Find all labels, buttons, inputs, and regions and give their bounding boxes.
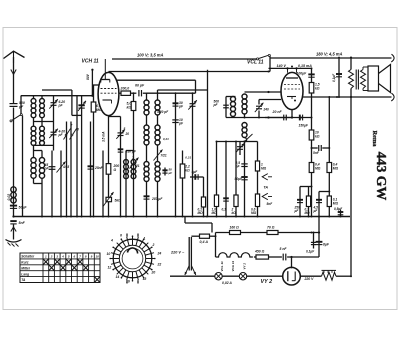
speaker	[368, 65, 391, 93]
value 0,1	[96, 104, 101, 108]
svg-text:0,15 mA: 0,15 mA	[298, 64, 312, 68]
wire grid entry	[92, 84, 98, 86]
junction bus x244.5	[244, 216, 246, 218]
junction bus x308.5	[308, 216, 310, 218]
wire R12 col	[203, 177, 205, 217]
junction at 268.5,71.5	[268, 71, 270, 73]
wire sec top link	[362, 67, 364, 70]
value 7/21	[161, 154, 167, 158]
svg-text:14: 14	[116, 275, 120, 279]
socket pin 14	[116, 275, 120, 279]
capacitor 45pF	[49, 167, 56, 170]
junction mid	[243, 140, 245, 142]
resistor R3 5,0kOhm	[131, 102, 136, 111]
fuse F1 0,4A	[200, 234, 210, 238]
value MOhm	[96, 108, 102, 112]
value 0,02A	[222, 281, 232, 285]
value 4-20	[58, 130, 66, 134]
coil tail squiggle	[245, 138, 247, 143]
value D21	[163, 137, 169, 141]
inductor L-ant 0,02	[11, 187, 16, 203]
junction at 329.3,191.5	[328, 191, 330, 193]
value 150uF	[299, 124, 309, 128]
capacitor 150uF	[300, 115, 303, 121]
junction at 351,276.2	[350, 275, 352, 277]
value 5uF	[192, 170, 199, 174]
wire L2 bottom frame	[34, 144, 54, 146]
wire trimmer C1 column	[53, 96, 55, 122]
wire to chassis	[13, 225, 15, 240]
socket pin 18	[143, 277, 147, 281]
junction at 133.5,93.2	[133, 92, 135, 94]
junction at 339,97	[338, 96, 340, 98]
capacitor 4,5uF	[316, 200, 322, 203]
socket pin 24	[157, 252, 162, 256]
socket pin 6	[120, 234, 122, 238]
svg-text:25nF: 25nF	[94, 166, 104, 170]
svg-text:0,21: 0,21	[163, 137, 169, 141]
value 8uF	[323, 243, 330, 247]
tube U1 anode	[101, 80, 110, 83]
resistor R16 0,6MOhm	[255, 194, 259, 207]
tube U1 cathode	[103, 100, 112, 104]
svg-text:VCL 11: VCL 11	[247, 60, 264, 66]
connector TA upper	[262, 174, 272, 180]
svg-text:MΩ: MΩ	[212, 211, 218, 215]
wire sw v3	[76, 96, 78, 217]
svg-text:5nF: 5nF	[19, 221, 26, 225]
tube U3 VY2 envelope	[283, 267, 301, 285]
wire mixer v	[90, 122, 92, 217]
svg-text:220 V: 220 V	[304, 277, 315, 281]
junction at 339,57.6	[338, 57, 340, 59]
trimmer C1 6-20pF	[49, 99, 58, 108]
junction bus x157.5	[157, 216, 159, 218]
title 443 GW	[374, 152, 389, 201]
svg-text:VY 2: VY 2	[261, 279, 273, 285]
junction bus x192.5	[192, 216, 194, 218]
capacitor 510pF	[118, 149, 124, 152]
resistor R5	[180, 164, 185, 178]
svg-text:MΩ: MΩ	[198, 211, 204, 215]
value kOhm d	[315, 134, 320, 138]
svg-text:21: 21	[135, 164, 140, 168]
wire 20nF row	[265, 117, 292, 119]
value D31	[185, 156, 191, 160]
junction bus x52	[51, 216, 53, 218]
junction grid node	[91, 95, 93, 97]
wire L1a bottom stub	[33, 118, 35, 122]
svg-text:0,31: 0,31	[185, 156, 191, 160]
svg-text:24: 24	[157, 252, 162, 256]
junction riser grid	[267, 91, 269, 93]
resistor R14 2kOhm	[234, 195, 238, 207]
capacitor 25nF	[88, 166, 94, 169]
tube U2 cathode	[287, 97, 296, 100]
svg-text:µF: µF	[168, 171, 173, 175]
value pF unit	[18, 105, 24, 109]
junction bus x103	[102, 216, 104, 218]
wire trimmer 100 stub	[239, 142, 241, 156]
junction bus x42	[41, 216, 43, 218]
wire below antenna cap	[13, 108, 15, 217]
wire power link drop	[211, 223, 213, 233]
junction U2 b	[295, 67, 297, 69]
ground	[6, 240, 22, 247]
wire VCL grid2	[259, 99, 281, 101]
wire primary bottom	[350, 89, 352, 98]
value 30	[179, 101, 183, 105]
capacitor C-ant 500pF	[10, 104, 18, 107]
wire 8uF column	[318, 217, 320, 258]
svg-text:kΩ: kΩ	[127, 106, 132, 110]
wire sec bot link	[362, 89, 364, 91]
svg-text:MΩ: MΩ	[251, 211, 257, 215]
band switch S1 blade	[10, 114, 22, 122]
value 200	[113, 164, 120, 168]
svg-text:18: 18	[143, 277, 147, 281]
svg-text:Kurz: Kurz	[21, 261, 29, 265]
wire IF2 bottom frame	[226, 117, 292, 119]
wire R5 col	[182, 151, 184, 217]
wire U1 anode out	[119, 92, 121, 94]
resistor R7 10kOhm	[309, 130, 314, 140]
junction riser bottom	[267, 116, 269, 118]
trimmer IF2 240	[255, 103, 264, 112]
net 100V 3,5mA	[137, 53, 164, 58]
wire L3 bottom frame	[34, 183, 43, 185]
wire osc v1	[125, 151, 127, 217]
svg-text:100µF: 100µF	[297, 72, 308, 76]
wire resistor row	[216, 232, 320, 234]
wire cathode right	[109, 116, 121, 118]
capacitor 50uF b	[241, 177, 247, 180]
junction at 292,66.5	[291, 66, 293, 68]
value 2,5	[235, 161, 241, 165]
value kOhm b	[185, 168, 190, 172]
inductor L1a	[31, 99, 36, 118]
wire mixer anode col	[207, 70, 209, 217]
wire 5uF row	[190, 176, 204, 178]
designator VY 2	[261, 279, 273, 285]
switch contacts band	[64, 129, 77, 140]
value 1 MOhm	[261, 163, 263, 167]
wire IF2 sec top	[245, 91, 282, 93]
wire IF2 frame top	[226, 96, 236, 98]
wire L1a top stub	[33, 96, 35, 99]
wire 05uF stub	[340, 210, 342, 217]
value 50 uF c	[169, 168, 173, 172]
capacitor 250uF	[297, 200, 303, 203]
wire anode top drop	[195, 80, 197, 93]
svg-text:VCH 11: VCH 11	[231, 261, 235, 272]
capacitor 30pF	[173, 103, 179, 106]
wire L-link	[300, 186, 312, 188]
junction at 292,117.5	[291, 117, 293, 119]
junction at 311.5,232.5	[311, 232, 313, 234]
junction bus x61	[60, 216, 62, 218]
hv bus 1 right	[270, 57, 392, 59]
svg-text:5µF: 5µF	[192, 170, 199, 174]
lamp LP1	[215, 273, 222, 280]
transformer core	[356, 70, 358, 90]
wire 0,1uF col	[338, 58, 340, 97]
value 240	[263, 108, 270, 112]
capacitor 50uF	[10, 206, 17, 209]
wire heater drop	[215, 233, 217, 258]
svg-text:240: 240	[263, 108, 270, 112]
svg-text:140 V: 140 V	[277, 64, 287, 68]
svg-text:200,0: 200,0	[120, 87, 130, 91]
svg-text:Mittel: Mittel	[21, 266, 30, 270]
junction bus x207	[206, 216, 208, 218]
resistor R10 0,4MOhm	[327, 163, 332, 173]
svg-text:20 nF: 20 nF	[272, 110, 283, 114]
antenna	[4, 51, 25, 63]
label VCL11 heater	[220, 261, 224, 271]
wire to IF1	[143, 92, 147, 94]
svg-text:Schalter: Schalter	[21, 255, 35, 259]
trimmer C4 arrow	[57, 162, 66, 173]
svg-text:VCH 11: VCH 11	[82, 59, 99, 65]
value uF a	[294, 209, 300, 213]
capacitor 20nF	[284, 115, 287, 121]
wire IF1 pri top	[146, 93, 148, 100]
resistor R2 200 Ohm	[106, 164, 111, 175]
junction at 301,117.5	[300, 117, 302, 119]
wire C4 column	[60, 151, 62, 217]
wire switch drop	[269, 56, 271, 72]
svg-text:MΩ: MΩ	[305, 211, 311, 215]
wire C30 column	[175, 93, 177, 216]
wire L2a bot stub	[33, 145, 35, 150]
tube U2 pin stub a	[287, 68, 289, 72]
switch blade TA	[245, 134, 253, 142]
value 0,4 a	[315, 163, 320, 167]
value 5nF b	[313, 151, 320, 155]
junction pri bot	[350, 96, 352, 98]
svg-text:TA: TA	[21, 278, 26, 282]
value 5nF d	[280, 247, 288, 251]
potentiometer 5kOhm	[106, 197, 112, 201]
svg-text:2: 2	[50, 255, 53, 259]
inductor L-osc b	[131, 160, 136, 179]
junction col 8uF	[318, 231, 320, 233]
value 500 pF	[19, 101, 25, 105]
wire right riser	[350, 97, 352, 276]
svg-text:5 nF: 5 nF	[280, 247, 288, 251]
capacitor 5uF	[195, 174, 198, 180]
wire mid h	[217, 141, 245, 143]
svg-text:5nF: 5nF	[313, 151, 320, 155]
resistor R9 0,1MOhm	[306, 196, 310, 207]
socket pin 2	[152, 243, 155, 247]
socket pin 4	[110, 239, 113, 243]
junction bus x203.5	[203, 216, 205, 218]
wire C3 column	[51, 151, 53, 217]
capacitor 200uF	[144, 196, 150, 199]
svg-text:0,02: 0,02	[7, 194, 11, 201]
wire L3 to bus	[41, 178, 43, 216]
wire IF1c sec to bus	[157, 182, 159, 217]
mains plug prongs	[185, 266, 196, 276]
value 45uF	[313, 206, 319, 210]
junction bus x300	[299, 216, 301, 218]
value MOhm b2	[305, 211, 311, 215]
designator VCL 11	[247, 60, 264, 66]
junction at 175.5,93.2	[175, 92, 177, 94]
junction at 216.5,141.5	[216, 141, 218, 143]
svg-text:0,1: 0,1	[222, 208, 227, 212]
ground bus	[14, 216, 351, 218]
wire IF1 sec top	[157, 90, 159, 100]
value 20	[125, 132, 130, 136]
connector TA lower	[262, 193, 272, 199]
inductor IF1b secondary	[155, 125, 160, 145]
wire ecap col a	[299, 187, 301, 217]
trimmer C2 4-20pF	[49, 129, 58, 138]
wire L1 bottom frame	[34, 121, 54, 123]
wire L2b top stub	[41, 122, 43, 127]
hv bus 1	[112, 58, 257, 60]
wire L3 bottom	[33, 178, 35, 183]
wire fuse row	[191, 235, 199, 237]
capacitor 0,1uF tone	[336, 74, 342, 77]
svg-text:4-20 pF: 4-20 pF	[156, 110, 169, 114]
svg-text:kΩ: kΩ	[315, 86, 320, 90]
svg-text:10: 10	[95, 255, 99, 259]
wire sw v2	[70, 122, 72, 217]
value Ohm	[113, 168, 117, 172]
value kOhm c	[315, 86, 320, 90]
socket pin 20	[151, 271, 156, 275]
capacitor 5nF lower	[10, 221, 16, 224]
junction at 226,141.5	[225, 141, 227, 143]
svg-text:Lang: Lang	[21, 272, 29, 276]
rheostat R20	[322, 270, 337, 280]
wire grid column	[81, 96, 83, 217]
wire L3a top stub	[33, 151, 35, 158]
svg-text:MΩ: MΩ	[333, 201, 339, 205]
value 2,2	[184, 165, 190, 169]
value kOhm e	[232, 211, 237, 215]
junction bus x311.5	[311, 216, 313, 218]
value 6-20	[59, 100, 66, 104]
junction VY2 top	[290, 256, 292, 258]
wire L3 frame	[34, 150, 43, 152]
tube U2 grid2 dashed	[284, 88, 300, 90]
svg-text:Rema: Rema	[371, 131, 378, 148]
svg-text:MΩ: MΩ	[261, 166, 267, 170]
trimmer 5/20	[116, 129, 125, 138]
capacitor 5nF bridge	[319, 145, 322, 151]
value 160	[230, 226, 240, 230]
svg-text:0,1µF: 0,1µF	[306, 250, 315, 254]
junction cath	[291, 116, 293, 118]
wire VY2 out	[300, 275, 321, 277]
value 0,02	[7, 194, 11, 201]
svg-text:180 V; 4,5 mA: 180 V; 4,5 mA	[316, 52, 343, 57]
value 510 pF	[126, 149, 137, 153]
junction bus x133.5	[133, 216, 135, 218]
resistor R19 450 Ohm	[256, 255, 269, 259]
value 60 pF	[135, 84, 145, 88]
wire osc top	[126, 150, 134, 152]
inductor L1b	[40, 99, 45, 118]
wire L-link b	[319, 191, 329, 193]
wire 5nF bridge b	[322, 147, 329, 149]
junction at 244.5,117.5	[244, 117, 246, 119]
value pF b	[213, 103, 219, 107]
svg-text:12: 12	[108, 266, 112, 270]
junction bus x108.5	[108, 216, 110, 218]
svg-text:510 pF: 510 pF	[126, 149, 137, 153]
resistor R18 70 Ohm	[267, 231, 278, 235]
svg-text:VCL 11: VCL 11	[220, 261, 224, 271]
value MOhm a	[315, 166, 321, 170]
wire 0,1uF stub	[313, 233, 315, 249]
svg-text:7: 7	[132, 156, 134, 160]
wire C 2,5nF col	[244, 142, 246, 217]
resistor R15 1MOhm	[255, 161, 259, 171]
wire trimmer 5/20 col	[120, 117, 122, 217]
wire L3b top stub	[41, 151, 43, 158]
value 4-20 pF	[156, 110, 169, 114]
value 5	[124, 127, 126, 131]
value 100uF	[297, 72, 308, 76]
capacitor 8uF	[316, 242, 323, 245]
socket pin 22	[157, 263, 162, 267]
wire to 60pF	[131, 92, 137, 94]
wire inner frame foot	[72, 114, 82, 116]
socket pin 12	[108, 266, 112, 270]
inductor IF2 secondary	[242, 94, 247, 114]
inductor L-osc a	[124, 160, 129, 179]
wire IF2 frame left	[225, 97, 227, 118]
svg-text:0,5µF: 0,5µF	[334, 207, 343, 211]
value MOhm f	[212, 211, 218, 215]
tube socket diagram	[109, 235, 155, 281]
value uF b	[313, 209, 319, 213]
value 0,6	[251, 208, 256, 212]
svg-text:287 µF: 287 µF	[151, 197, 163, 201]
wire inner frame top	[42, 89, 72, 91]
socket pin 1	[144, 237, 146, 241]
wire IF1b pri v	[146, 145, 148, 162]
tube U1 VCH11 envelope	[98, 72, 119, 115]
svg-text:60 pF: 60 pF	[135, 84, 145, 88]
value 0,4A	[200, 240, 209, 244]
svg-text:MΩ: MΩ	[315, 166, 321, 170]
tube U1 grid1 dashed	[101, 88, 117, 90]
value pF	[58, 104, 64, 108]
heater chain	[216, 253, 253, 257]
svg-text:450 Ω: 450 Ω	[254, 250, 265, 254]
connector top right	[391, 54, 394, 62]
trimmer 100pF	[236, 143, 245, 152]
inductor IF1b primary	[144, 125, 149, 145]
value 0,1uF tone	[332, 73, 336, 82]
wire mid h b	[245, 141, 258, 143]
junction at 311.5,117.5	[311, 117, 313, 119]
junction at 192.5,93.2	[192, 92, 194, 94]
svg-text:150µF: 150µF	[299, 124, 309, 128]
wire transformer top stub	[350, 58, 352, 70]
svg-text:0,4 A: 0,4 A	[200, 240, 209, 244]
speaker return line	[303, 96, 392, 98]
value 5nF c	[267, 202, 274, 206]
wire bus1 into tube top	[104, 59, 106, 79]
